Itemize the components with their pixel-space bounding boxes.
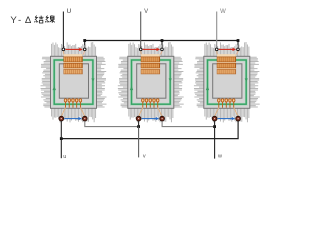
- secondary polarity arrow (blue) T3: [218, 118, 234, 120]
- terminal U1 (top-left): [62, 48, 65, 51]
- neutral bus (primary star point): [85, 40, 238, 42]
- primary winding band 1 T3: [217, 57, 236, 62]
- title kanji SEN (wire): [45, 15, 55, 23]
- secondary winding coil T3: [218, 99, 235, 108]
- svg-text:w: w: [217, 154, 222, 160]
- neutral drop to T3: [237, 41, 239, 49]
- transformer T2 core window: [137, 64, 166, 98]
- transformer T3 flux path (green loop): [208, 60, 247, 104]
- junction node T2/neutral: [161, 39, 164, 42]
- svg-text:Δ: Δ: [25, 15, 32, 26]
- primary winding band 2 T1: [64, 63, 83, 68]
- junction node T3/neutral: [237, 39, 240, 42]
- svg-text:U: U: [67, 9, 71, 15]
- secondary lead right T2: [158, 108, 162, 117]
- flux arrow up, left leg T3: [206, 86, 209, 90]
- secondary lead left T1: [61, 108, 65, 117]
- primary winding lead left T2: [140, 51, 143, 55]
- svg-text:Y: Y: [10, 15, 17, 26]
- primary winding lead right T1: [83, 51, 84, 55]
- primary polarity arrow (red) T1: [65, 48, 80, 50]
- terminal W2 (top-right, to neutral): [237, 48, 240, 51]
- secondary lead left T3: [215, 108, 219, 117]
- junction node v1: [137, 125, 140, 128]
- transformer T1: [41, 9, 107, 122]
- terminal v2 (bottom-right): [160, 116, 165, 121]
- primary winding backdrop T2: [141, 54, 160, 74]
- primary winding band 3 T2: [141, 69, 160, 74]
- junction node T1/neutral: [83, 39, 86, 42]
- transformer T2 flux path (green loop): [132, 60, 171, 104]
- svg-text:W: W: [220, 9, 226, 15]
- secondary winding coil T1: [64, 99, 81, 108]
- transformer T1 flux path (green loop): [54, 60, 93, 104]
- primary winding band 2 T3: [217, 63, 236, 68]
- flux arrow down, right leg T2: [169, 78, 172, 82]
- primary winding backdrop T1: [64, 54, 83, 74]
- primary winding lead left T1: [62, 51, 65, 55]
- primary winding backdrop T3: [217, 54, 236, 74]
- primary polarity arrow (red) T3: [219, 48, 234, 50]
- junction node w1: [213, 125, 216, 128]
- phase line W: [216, 12, 218, 49]
- phase line V: [140, 12, 142, 49]
- primary polarity arrow (red) T2: [143, 48, 158, 50]
- secondary winding coil T2: [142, 99, 159, 108]
- transformer T3: [194, 9, 260, 122]
- terminal v1 (bottom-left): [136, 116, 141, 121]
- svg-text:u: u: [63, 154, 66, 160]
- primary winding band 2 T2: [141, 63, 160, 68]
- secondary lead left T2: [139, 108, 143, 117]
- flux arrow up, left leg T2: [130, 86, 133, 90]
- phase line U: [62, 12, 64, 49]
- delta link wire v2-w1 (gray): [162, 121, 215, 127]
- transformer T2 core laminations (fringe hairs): [118, 42, 184, 122]
- terminal U2 (top-right, to neutral): [83, 48, 86, 51]
- svg-text:v: v: [143, 154, 146, 160]
- primary winding band 3 T1: [64, 69, 83, 74]
- transformer T3 core body: [204, 56, 250, 108]
- primary winding lead left T3: [216, 51, 219, 55]
- terminal u2 (bottom-right): [82, 116, 87, 121]
- output line u: [60, 121, 62, 158]
- flux arrow up, left leg T1: [53, 86, 57, 90]
- transformer T2 core body: [128, 56, 174, 108]
- secondary polarity arrow (blue) T1: [64, 118, 80, 120]
- transformer T3 core window: [213, 64, 242, 98]
- terminal W1 (top-left): [215, 48, 218, 51]
- terminal u1 (bottom-left): [59, 116, 64, 121]
- primary winding band 1 T1: [64, 57, 83, 62]
- transformer T2: [118, 9, 184, 122]
- transformer T1 core window: [59, 64, 88, 98]
- transformer T1 core body: [51, 56, 97, 108]
- neutral drop to T1: [84, 41, 86, 49]
- svg-text:-: -: [18, 15, 21, 26]
- primary winding band 1 T2: [141, 57, 160, 62]
- transformer T1 core laminations (fringe hairs): [41, 42, 107, 122]
- transformer T3 core laminations (fringe hairs): [194, 42, 260, 122]
- output line w: [214, 121, 216, 159]
- neutral drop to T2: [161, 41, 163, 49]
- secondary lead right T1: [80, 108, 84, 117]
- primary winding lead right T3: [237, 51, 238, 55]
- terminal w2 (bottom-right): [236, 116, 241, 121]
- delta link wire u2-v1 (gray): [85, 121, 139, 127]
- primary winding band 3 T3: [217, 69, 236, 74]
- output line v: [138, 121, 140, 127]
- terminal V1 (top-left): [139, 48, 142, 51]
- terminal V2 (top-right, to neutral): [161, 48, 164, 51]
- secondary lead right T3: [234, 108, 238, 117]
- flux arrow down, right leg T1: [91, 78, 94, 82]
- title kanji KETSU (connection): [34, 16, 43, 23]
- delta return bus w2-u1: [61, 121, 238, 139]
- flux arrow down, right leg T3: [245, 78, 248, 82]
- svg-text:V: V: [144, 9, 148, 15]
- junction node u: [60, 137, 63, 140]
- secondary polarity arrow (blue) T2: [142, 118, 158, 120]
- primary winding lead right T2: [161, 51, 162, 55]
- terminal w1 (bottom-left): [212, 116, 217, 121]
